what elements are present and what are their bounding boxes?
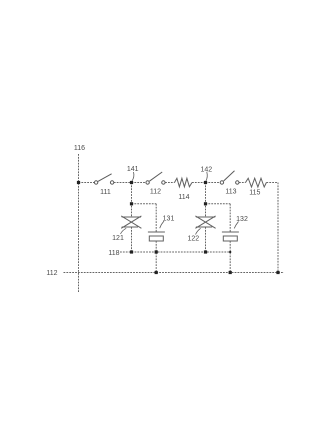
svg-text:118: 118: [108, 250, 119, 257]
svg-text:142: 142: [200, 166, 212, 173]
svg-text:116: 116: [74, 145, 85, 152]
svg-text:121: 121: [112, 235, 124, 242]
svg-text:115: 115: [249, 190, 260, 197]
svg-text:122: 122: [187, 236, 199, 243]
svg-text:111: 111: [100, 189, 111, 196]
svg-text:112: 112: [46, 270, 57, 277]
svg-text:131: 131: [163, 216, 175, 223]
svg-text:114: 114: [178, 194, 189, 201]
svg-text:141: 141: [127, 166, 139, 173]
svg-text:113: 113: [225, 189, 236, 196]
svg-text:132: 132: [236, 216, 248, 223]
svg-text:112: 112: [150, 188, 161, 195]
